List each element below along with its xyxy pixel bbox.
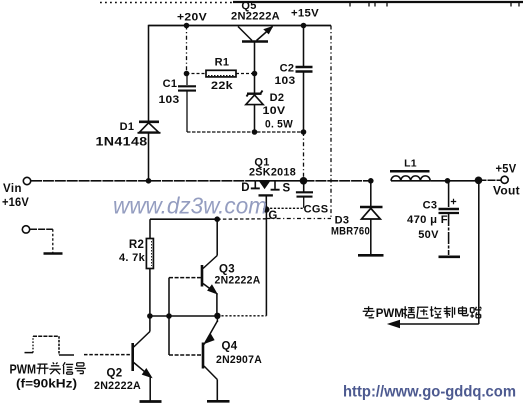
capacitor C1 top plate bbox=[178, 85, 196, 87]
mosfet Q1 body arrow bbox=[260, 181, 270, 188]
wire Q3 emitter drop bbox=[216, 293, 218, 316]
wire driver feed left segment bbox=[150, 218, 217, 220]
svg-text:103: 103 bbox=[275, 75, 296, 87]
wire +20V rail bbox=[149, 25, 332, 27]
wire Q3 collector vertical bbox=[216, 219, 218, 255]
svg-text:PWM: PWM bbox=[376, 308, 404, 320]
top border solid line bbox=[233, 1, 523, 3]
svg-text:Q4: Q4 bbox=[222, 341, 238, 353]
wire C3 top lead bbox=[448, 181, 450, 207]
svg-text:L1: L1 bbox=[404, 158, 417, 170]
wire Q2 emitter drop bbox=[149, 377, 151, 401]
node R1 C1 junction dot bbox=[184, 71, 190, 77]
node C3 dot bbox=[445, 178, 451, 184]
svg-text:+16V: +16V bbox=[2, 195, 29, 209]
wire R1 left lead bbox=[187, 73, 207, 75]
node D1 rail dot bbox=[146, 178, 152, 184]
terminal Vin circle bbox=[23, 177, 30, 184]
wire source node to CGS bbox=[303, 181, 305, 192]
capacitor C2 bottom plate bbox=[296, 70, 313, 72]
node G dot bbox=[263, 206, 269, 212]
svg-text:0. 5W: 0. 5W bbox=[265, 119, 293, 131]
transistor Q3 emitter arrow bbox=[208, 285, 217, 294]
svg-text:Vout: Vout bbox=[493, 186, 520, 198]
wire Q4 base wire bbox=[169, 354, 202, 356]
inductor L1 coil bbox=[391, 176, 430, 181]
wire Q3 base wire bbox=[169, 277, 201, 279]
wire driver feed right segment bbox=[266, 218, 331, 220]
transistor Q5 emitter arrow bbox=[264, 27, 272, 34]
wire C2 node to source node bbox=[303, 132, 305, 181]
node D3 dot bbox=[368, 178, 374, 184]
wire D2 anode to bottom wire bbox=[254, 105, 256, 132]
diode D1 base serif bbox=[138, 132, 161, 134]
svg-text:PWM: PWM bbox=[10, 363, 37, 377]
wire CGS bottom lead bbox=[303, 198, 305, 208]
svg-text:+5V: +5V bbox=[496, 164, 517, 176]
mosfet Q1 drain stub bbox=[254, 181, 256, 188]
wire gate vertical bbox=[265, 210, 267, 316]
wire rail to out node bbox=[448, 180, 479, 182]
node +15V dot bbox=[301, 23, 307, 29]
wire Q1 gate drop bbox=[265, 195, 267, 209]
label feedback to PWM control (CJK) bbox=[363, 306, 482, 320]
wire feedback vertical bbox=[478, 180, 480, 324]
terminal input ground circle bbox=[22, 226, 29, 233]
wire input ground horizontal bbox=[30, 228, 53, 230]
transistor Q5 base bar bbox=[242, 40, 268, 43]
wire to Vout terminal bbox=[479, 179, 501, 181]
svg-text:Vin: Vin bbox=[3, 181, 22, 195]
pwm pulse baseline right bbox=[59, 354, 74, 356]
svg-text:1N4148: 1N4148 bbox=[96, 137, 148, 149]
wire D3 top lead bbox=[370, 181, 372, 206]
node base tie dot bbox=[166, 313, 172, 319]
terminal Vout circle bbox=[501, 176, 508, 183]
wire input ground drop bbox=[52, 229, 54, 252]
zener D2 cathode bar bbox=[247, 91, 263, 97]
label PWM switch signal (CJK) bbox=[10, 362, 86, 376]
svg-text:+20V: +20V bbox=[177, 12, 207, 24]
wire +15V node to C2 bbox=[303, 26, 305, 67]
transistor Q2 emitter bbox=[134, 363, 150, 377]
wire C2 bottom lead bbox=[303, 73, 305, 133]
svg-text:www.dz3w.com: www.dz3w.com bbox=[113, 193, 267, 219]
zener D2 triangle bbox=[246, 95, 263, 105]
top border tick x=369 bbox=[368, 2, 370, 7]
pwm pulse top bbox=[33, 335, 59, 337]
svg-text:S: S bbox=[283, 183, 291, 195]
transistor Q2 base bar bbox=[131, 343, 134, 371]
svg-text:22k: 22k bbox=[211, 80, 234, 92]
svg-text:(f=90kHz): (f=90kHz) bbox=[16, 377, 77, 391]
wire driver feed left corner bbox=[149, 219, 151, 238]
resistor R2 texture bbox=[151, 241, 153, 266]
node R1 right dot bbox=[252, 71, 258, 77]
wire C1 bottom lead bbox=[186, 92, 188, 133]
capacitor C3 top plate bbox=[439, 208, 460, 211]
svg-text:2N2222A: 2N2222A bbox=[231, 11, 280, 23]
ground Q2 bar bbox=[140, 400, 162, 403]
node R2 bottom dot bbox=[147, 313, 153, 319]
node Q3 collector dot bbox=[214, 216, 220, 222]
ground Q4 bar bbox=[207, 400, 230, 403]
svg-text:+15V: +15V bbox=[291, 8, 319, 20]
svg-text:R1: R1 bbox=[215, 57, 230, 69]
svg-text:2N2907A: 2N2907A bbox=[216, 354, 262, 366]
wire driver output rail right bbox=[217, 315, 266, 317]
wire R1 right lead bbox=[236, 73, 255, 75]
svg-text:C3: C3 bbox=[423, 200, 438, 212]
resistor R2 body bbox=[146, 239, 153, 269]
wire +15V rail right corner bbox=[330, 26, 332, 219]
transistor Q4 base bar bbox=[202, 343, 205, 369]
wire feedback horizontal bbox=[397, 323, 479, 325]
node output node dot bbox=[214, 313, 220, 319]
wire Q5 base to node bbox=[254, 42, 256, 74]
wire CGS to gate node bbox=[266, 207, 303, 209]
transistor Q4 emitter bbox=[204, 321, 217, 345]
wire Q4 emitter drop bbox=[216, 316, 218, 322]
wire D1 anode to Vin rail bbox=[148, 133, 150, 181]
svg-text:470 μ F: 470 μ F bbox=[407, 214, 448, 226]
svg-text:50V: 50V bbox=[418, 229, 439, 241]
diode D1 triangle bbox=[140, 123, 159, 132]
pwm pulse baseline left bbox=[25, 352, 34, 354]
svg-text:CGS: CGS bbox=[304, 204, 329, 216]
diode D1 cathode bar bbox=[139, 121, 159, 124]
svg-text:MBR760: MBR760 bbox=[331, 226, 370, 238]
svg-text:2SK2018: 2SK2018 bbox=[249, 167, 296, 179]
wire D3 bottom lead bbox=[370, 219, 372, 254]
transistor Q2 collector bbox=[134, 332, 150, 348]
ground D3 bar bbox=[358, 254, 384, 257]
pwm pulse rising edge bbox=[32, 336, 34, 352]
ground C3 bar bbox=[439, 255, 461, 258]
wire Q4 collector drop bbox=[216, 380, 218, 401]
wire C1 top lead bbox=[186, 74, 188, 86]
wire rail to C3 bbox=[430, 180, 447, 182]
wire R2 bottom lead bbox=[149, 269, 151, 317]
wire rail through mosfet bbox=[255, 180, 303, 182]
svg-text:103: 103 bbox=[159, 94, 180, 106]
capacitor C1 bottom plate bbox=[178, 90, 196, 92]
ground input bar bbox=[44, 252, 63, 255]
capacitor C3 bottom plate bbox=[439, 212, 460, 214]
capacitor C2 top plate bbox=[296, 66, 313, 68]
feedback arrowhead bbox=[389, 320, 400, 327]
capacitor CGS top plate bbox=[296, 191, 313, 193]
wire R1 node to D2 bbox=[254, 74, 256, 93]
wire Q2 base wire bbox=[84, 354, 133, 356]
wire +20V rail left drop bbox=[148, 25, 150, 121]
svg-text:Q2: Q2 bbox=[107, 368, 123, 380]
transistor Q3 collector bbox=[203, 256, 217, 269]
wire driver feed middle segment bbox=[217, 218, 266, 220]
transistor Q3 base bar bbox=[201, 265, 204, 287]
wire Vin rail bbox=[31, 180, 255, 182]
svg-text:G: G bbox=[268, 210, 277, 222]
wire +20V node to R1 C1 junction bbox=[186, 26, 188, 74]
resistor R1 body bbox=[206, 70, 236, 77]
top border tick x=519 bbox=[518, 2, 520, 7]
diode D3 triangle bbox=[362, 208, 381, 219]
node box bottom right dot bbox=[301, 129, 307, 135]
wire rail to D3 bbox=[304, 180, 372, 182]
transistor Q5 emitter bbox=[257, 27, 273, 41]
node D2 bottom dot bbox=[252, 129, 258, 135]
label C3 plus bbox=[451, 199, 456, 204]
top border tick x=511 bbox=[510, 2, 512, 7]
svg-text:C1: C1 bbox=[163, 78, 178, 90]
diode D3 cathode bar bbox=[360, 206, 383, 209]
svg-text:C2: C2 bbox=[280, 63, 295, 75]
transistor Q2 emitter arrow bbox=[143, 369, 152, 378]
mosfet Q1 source stub bbox=[274, 181, 276, 189]
resistor R1 texture bbox=[208, 75, 234, 77]
node +20V dot bbox=[184, 23, 190, 29]
top border tick x=350 bbox=[349, 2, 351, 7]
top border dotted segment bbox=[100, 2, 233, 4]
node source dot bbox=[300, 177, 308, 185]
svg-text:2N2222A: 2N2222A bbox=[94, 380, 141, 392]
transistor Q4 collector bbox=[204, 366, 217, 380]
svg-text:R2: R2 bbox=[129, 239, 144, 251]
svg-text:http://www.go-gddq.com: http://www.go-gddq.com bbox=[343, 384, 516, 401]
wire Q2 collector vertical bbox=[149, 316, 151, 332]
wire base tie vertical bbox=[168, 278, 170, 355]
capacitor CGS bottom plate bbox=[297, 196, 313, 198]
svg-text:10V: 10V bbox=[263, 105, 286, 117]
transistor Q3 emitter bbox=[203, 284, 215, 293]
svg-text:4. 7k: 4. 7k bbox=[119, 252, 146, 264]
pwm pulse falling edge bbox=[58, 336, 60, 355]
svg-text:D1: D1 bbox=[120, 121, 135, 133]
mosfet Q1 gate bar bbox=[259, 194, 273, 196]
transistor Q5 collector bbox=[238, 27, 252, 41]
top border tick x=375 bbox=[374, 2, 376, 7]
wire regulator box bottom bbox=[187, 131, 304, 133]
wire driver output rail left bbox=[150, 315, 218, 317]
top border tick x=387 bbox=[386, 2, 388, 7]
inductor L1 bar bbox=[390, 170, 430, 173]
transistor Q4 emitter arrow bbox=[205, 334, 214, 343]
svg-text:D2: D2 bbox=[270, 92, 285, 104]
node output dot bbox=[475, 177, 483, 185]
svg-text:2N2222A: 2N2222A bbox=[215, 275, 261, 287]
wire C3 bottom lead bbox=[448, 214, 450, 255]
